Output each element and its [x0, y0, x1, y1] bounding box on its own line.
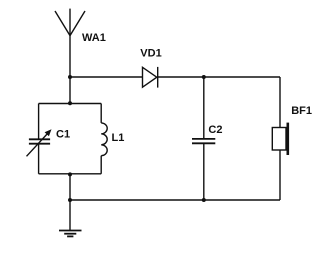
diode VD1 [143, 67, 158, 88]
wire: tank loop bottom edge [39, 173, 102, 175]
antenna WA1 [55, 9, 85, 36]
node: junction bottom wire / C2 [202, 198, 206, 202]
svg-text:WA1: WA1 [82, 32, 106, 44]
wire: tank bottom to ground junction [69, 174, 71, 200]
node: junction tank bottom [68, 172, 72, 176]
wire: tank loop top edge [39, 103, 102, 105]
wire: tank left side upper [38, 104, 40, 140]
wire: bottom horizontal [70, 199, 280, 201]
wire: BF1 to bottom corner [279, 150, 281, 200]
capacitor C1 (variable) [27, 129, 52, 156]
svg-text:BF1: BF1 [291, 105, 312, 117]
svg-text:VD1: VD1 [140, 47, 161, 59]
svg-text:C2: C2 [208, 124, 222, 136]
capacitor C2 [192, 139, 215, 143]
inductor L1 [101, 123, 107, 156]
wire: C2 branch lower [203, 143, 205, 200]
wire: diode cathode to right corner [158, 76, 280, 78]
svg-text:C1: C1 [56, 129, 70, 141]
headphone BF1 [272, 123, 288, 155]
node: junction ground [68, 198, 72, 202]
node: junction antenna/diode [68, 75, 72, 79]
wire: top horizontal to diode anode [70, 76, 143, 78]
wire: tank right side upper [100, 104, 102, 123]
ground [59, 200, 82, 236]
wire: antenna lead to tank top [69, 36, 71, 104]
wire: tank left side lower [38, 144, 40, 174]
wire: C2 branch upper [203, 77, 205, 139]
wire: right vertical to BF1 [279, 77, 281, 128]
svg-text:L1: L1 [112, 132, 125, 144]
wire: tank right side lower [100, 156, 102, 174]
node: junction top wire / C2 [202, 75, 206, 79]
node: junction tank top [68, 101, 72, 105]
